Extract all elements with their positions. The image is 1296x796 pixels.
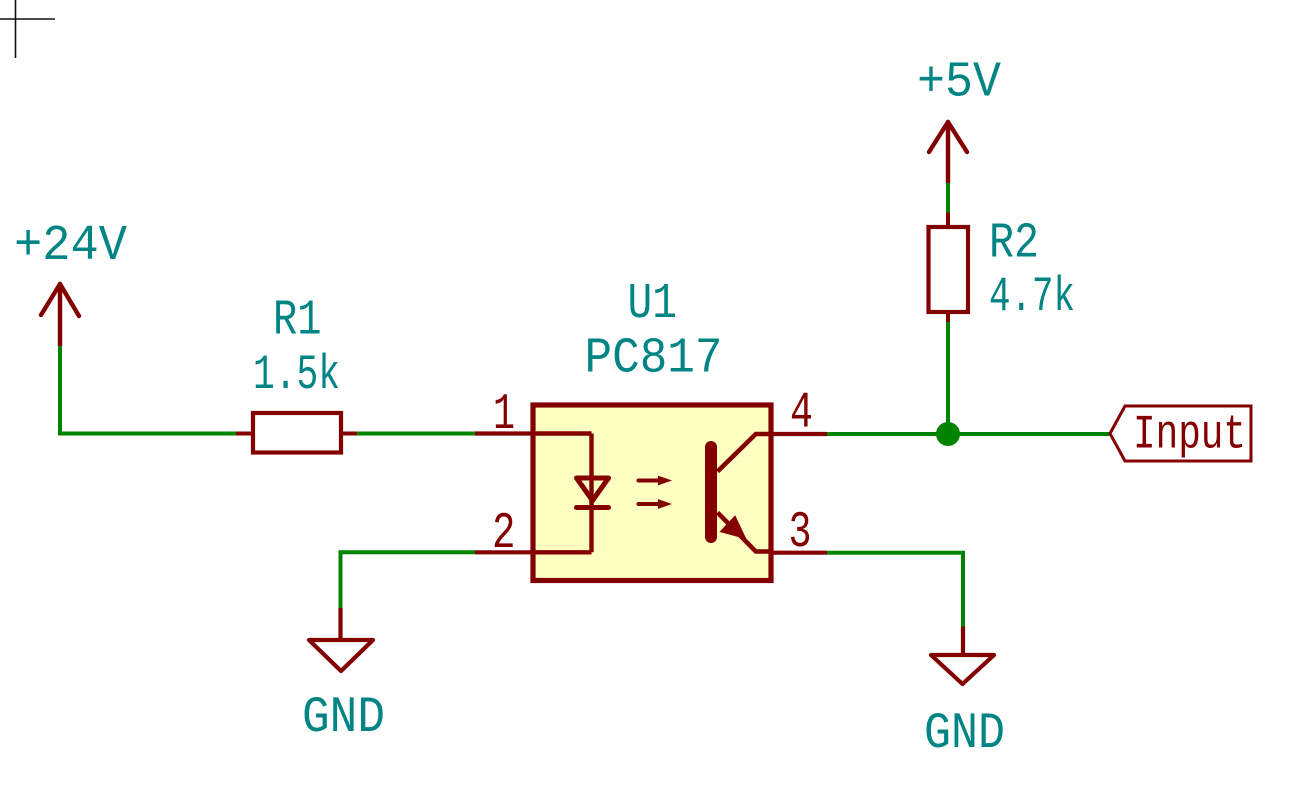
wire +24V to R1	[60, 346, 236, 434]
svg-text:4.7k: 4.7k	[989, 269, 1075, 325]
global label Input	[1110, 406, 1251, 463]
LED internal wiring	[535, 434, 592, 553]
junction	[936, 422, 960, 446]
pin 4	[771, 432, 827, 436]
svg-text:Input: Input	[1133, 409, 1246, 463]
resistor R2	[929, 213, 1076, 326]
pin 1	[475, 431, 533, 435]
sheet origin crosshair	[0, 0, 55, 58]
svg-text:R1: R1	[273, 293, 322, 350]
svg-text:GND: GND	[302, 690, 385, 747]
power flag +5V	[917, 55, 1001, 184]
resistor R1	[236, 293, 357, 453]
svg-text:GND: GND	[924, 706, 1005, 763]
phototransistor	[711, 434, 771, 552]
wire U1 pin2 to GND	[341, 552, 476, 608]
svg-text:+5V: +5V	[917, 55, 1001, 112]
svg-text:1.5k: 1.5k	[253, 347, 340, 403]
svg-text:PC817: PC817	[585, 331, 723, 388]
svg-text:4: 4	[790, 386, 813, 443]
wire U1 pin4 to junction to Input	[827, 432, 1110, 436]
svg-text:3: 3	[789, 505, 812, 562]
svg-text:U1: U1	[628, 276, 678, 333]
wire U1 pin3 to GND	[827, 553, 963, 627]
power flag +24V	[14, 218, 127, 346]
svg-text:R2: R2	[989, 216, 1039, 273]
LED D triangle	[577, 478, 609, 508]
svg-text:1: 1	[493, 387, 515, 444]
ground GND left	[302, 608, 385, 747]
ground GND right	[924, 627, 1005, 764]
wire R1 to U1 pin 1	[357, 432, 475, 436]
pin 3	[771, 551, 827, 555]
svg-text:+24V: +24V	[14, 218, 127, 275]
U1 body	[533, 405, 771, 581]
svg-text:2: 2	[492, 506, 516, 563]
wire +5V to R2	[946, 183, 950, 213]
pin 2	[475, 550, 533, 554]
light emission arrows	[639, 481, 660, 505]
emitter arrow	[721, 517, 744, 538]
optocoupler U1 PC817	[475, 276, 827, 581]
wire junction up to R2	[946, 322, 950, 434]
